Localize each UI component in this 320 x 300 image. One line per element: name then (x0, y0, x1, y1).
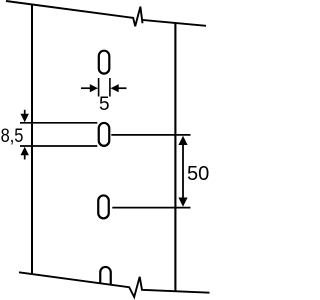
dim 5: right extension line (109, 78, 111, 97)
dim 50: dimension line with arrows (178, 136, 187, 207)
dim 8,5: bottom tangent extension line (20, 145, 97, 147)
dim 5: right arrow (111, 84, 127, 92)
dim 50: upper leader line from slot 2 (111, 134, 190, 136)
slot hole 1 (top) (99, 51, 110, 74)
svg-text:5: 5 (99, 94, 110, 115)
dim 8,5: upper arrow (points down) (21, 110, 29, 122)
right plate edge (174, 23, 176, 291)
slot hole 4 (clipped by bottom break) (100, 267, 111, 290)
top edge right segment (142, 20, 206, 26)
dim 5: left arrow (81, 84, 98, 92)
dim 8,5: lower arrow (points up) (21, 147, 29, 160)
left plate edge (31, 4, 33, 274)
dim 5: left extension line (98, 78, 100, 97)
svg-text:50: 50 (187, 163, 209, 185)
bottom edge break line (19, 272, 210, 297)
dim 8,5: top tangent extension line (20, 122, 97, 124)
slot hole 3 (98, 195, 109, 218)
dim 50: lower leader line from slot 3 (112, 207, 190, 209)
top edge break line (6, 1, 143, 26)
svg-text:8,5: 8,5 (1, 125, 24, 147)
slot hole 2 (99, 123, 110, 146)
